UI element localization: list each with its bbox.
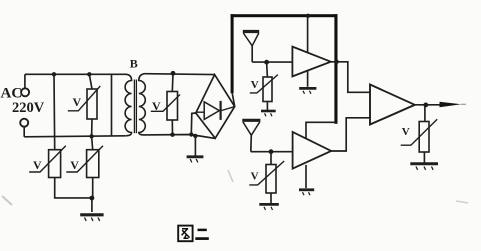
node R1 top xyxy=(264,60,269,65)
node ground join xyxy=(90,196,95,201)
ground below U1 xyxy=(299,88,316,93)
wire varistor VA drop xyxy=(53,74,56,149)
power box top edge xyxy=(231,14,338,17)
node output xyxy=(423,103,428,108)
ground below R1 xyxy=(261,102,276,117)
scan smudge right xyxy=(456,201,468,203)
output arrow xyxy=(440,102,462,108)
node bridge tap bottom xyxy=(189,132,193,136)
varistor VB xyxy=(66,136,103,177)
node top rail A xyxy=(52,72,56,76)
svg-text:V: V xyxy=(73,95,82,109)
svg-text:V: V xyxy=(402,126,410,138)
svg-text:V: V xyxy=(152,99,161,113)
op-amp U2 xyxy=(293,132,332,169)
svg-text:V: V xyxy=(33,158,42,172)
power box left edge xyxy=(231,14,234,93)
transformer B xyxy=(125,57,145,136)
wire U1 output xyxy=(331,62,370,93)
ground below R3 xyxy=(410,152,438,170)
node U1 output on box edge xyxy=(334,59,339,64)
wire U2 ground stem xyxy=(305,165,307,188)
terminal AC-N xyxy=(20,119,28,127)
wire primary shunt branch xyxy=(111,74,113,136)
bridge rectifier xyxy=(196,75,235,139)
op-amp U1 xyxy=(292,47,330,77)
wire to op-amp U1 input xyxy=(252,61,292,63)
ground main xyxy=(80,215,103,221)
svg-text:V: V xyxy=(251,79,259,91)
wire U2 output xyxy=(331,118,370,151)
svg-text:V: V xyxy=(70,158,79,172)
varistor R1 xyxy=(250,62,278,101)
node secondary top xyxy=(171,71,176,76)
svg-text:B: B xyxy=(130,57,138,71)
scan smudge left xyxy=(2,196,12,205)
caption 图二 xyxy=(178,226,209,242)
wire varistor bottoms join xyxy=(55,178,93,213)
node top rail B xyxy=(87,72,91,76)
node secondary bottom xyxy=(170,133,174,137)
wire bridge left-vertex drop xyxy=(191,113,196,135)
wire bottom rail left xyxy=(24,136,126,137)
varistor R2 xyxy=(249,152,284,193)
varistor V1 xyxy=(68,74,101,136)
power box right edge xyxy=(334,14,337,124)
varistor VA xyxy=(29,146,66,178)
wire U1 power xyxy=(307,17,309,53)
wire box-left to bridge xyxy=(232,93,234,106)
probe triangle T1 xyxy=(243,32,259,63)
ground below bridge xyxy=(187,136,204,162)
wire U1 ground stem xyxy=(307,71,309,87)
wire top rail left xyxy=(25,73,127,75)
node bottom rail V1 xyxy=(89,134,93,138)
op-amp U3 xyxy=(370,85,415,125)
ground below U2 xyxy=(299,190,314,195)
probe triangle T2 xyxy=(242,120,260,151)
wire U3 output xyxy=(415,104,441,106)
varistor R3 xyxy=(401,105,438,152)
wire top rail right xyxy=(145,73,215,76)
node box top power xyxy=(306,14,310,18)
wire U2 power xyxy=(306,122,336,139)
wire terminal N to bottom rail xyxy=(23,127,25,137)
scan smudge mid xyxy=(228,170,233,182)
node R2 top xyxy=(269,149,274,154)
varistor V2 xyxy=(151,73,180,134)
wire terminal L to top rail xyxy=(24,74,26,88)
node ground tap xyxy=(193,134,197,138)
ground below R2 xyxy=(259,193,279,210)
svg-text:220V: 220V xyxy=(12,100,45,116)
svg-text:V: V xyxy=(251,171,259,183)
wire bottom rail right xyxy=(145,135,216,139)
terminal AC-L xyxy=(21,88,29,96)
wire to op-amp U2 input xyxy=(251,151,293,153)
